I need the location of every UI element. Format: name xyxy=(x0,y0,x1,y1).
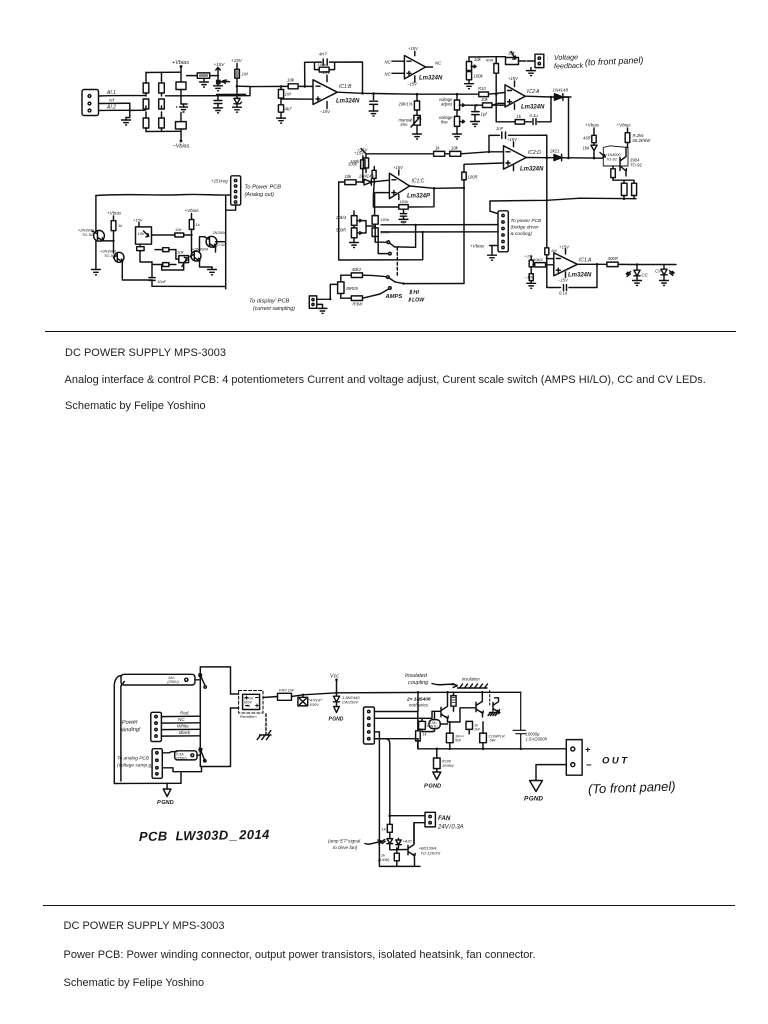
resistor R33 xyxy=(372,224,378,242)
resistor RM7 xyxy=(189,214,194,236)
LED opto pair xyxy=(382,837,393,848)
svg-text:(To front panel): (To front panel) xyxy=(588,778,676,796)
capacitor C8 loop top xyxy=(502,132,506,138)
svg-text:0.1u: 0.1u xyxy=(530,113,539,118)
transistor QL1 xyxy=(92,230,114,241)
svg-text:CC: CC xyxy=(642,273,649,278)
wire minus input xyxy=(489,151,504,153)
resistor R11 20k/1% xyxy=(414,94,419,115)
wire nc xyxy=(161,722,200,724)
svg-text:(1/4W): (1/4W) xyxy=(378,858,390,862)
mid box pot xyxy=(136,223,152,245)
svg-text:−1%: −1% xyxy=(525,275,534,280)
svg-text:P GND: P GND xyxy=(524,796,543,803)
vertical combine wire xyxy=(568,97,570,158)
svg-text:+15V: +15V xyxy=(393,165,404,170)
wire Q8 emitter to Q9 base xyxy=(448,708,477,722)
svg-text:fine: fine xyxy=(441,120,448,125)
caption 1 byline xyxy=(65,400,206,412)
svg-text:+15V: +15V xyxy=(408,46,419,51)
resistor R22 46R xyxy=(592,128,596,143)
resistor RA3 lower pair xyxy=(143,112,149,132)
svg-text:(250V): (250V) xyxy=(167,680,179,684)
fan drive vertical B xyxy=(374,739,389,825)
PGND arrow out xyxy=(530,781,543,792)
wire pgnd stub xyxy=(166,783,168,789)
svg-text:TO-126/XX: TO-126/XX xyxy=(421,851,441,856)
resistor R21 xyxy=(361,149,369,173)
svg-text:(bridge driver: (bridge driver xyxy=(511,225,540,231)
pot RM6 xyxy=(162,250,189,270)
node IC2D out xyxy=(546,156,549,159)
svg-text:Ⅱ HI: Ⅱ HI xyxy=(409,289,419,296)
wire up right connector xyxy=(226,205,236,210)
resistor RM3 xyxy=(152,233,192,237)
svg-text:10k: 10k xyxy=(481,97,489,102)
ground under D2 xyxy=(233,107,242,112)
wire A drop to switch xyxy=(395,225,416,247)
op-amp IC2:A xyxy=(505,81,525,109)
svg-text:(amp “ET” signal: (amp “ET” signal xyxy=(328,839,361,844)
svg-text:+Vbias: +Vbias xyxy=(617,123,632,128)
op-amp IC2:D xyxy=(504,142,527,171)
svg-text:To power PCB: To power PCB xyxy=(511,218,543,224)
wire IC2D out xyxy=(526,157,554,159)
svg-text:FAN: FAN xyxy=(438,815,451,822)
svg-text:+Vbias: +Vbias xyxy=(585,123,600,128)
svg-text:80R: 80R xyxy=(486,58,493,63)
ground under C3 xyxy=(214,108,223,113)
svg-text:Rectifier≈: Rectifier≈ xyxy=(240,714,258,719)
resistor R35 40k2 xyxy=(341,273,387,278)
svg-text:2k21: 2k21 xyxy=(549,149,560,154)
svg-text:IC1:A: IC1:A xyxy=(579,258,592,264)
arrow to opto xyxy=(365,840,382,844)
svg-text:Red: Red xyxy=(180,711,189,716)
svg-text:10k: 10k xyxy=(287,78,295,83)
svg-text:adjust: adjust xyxy=(441,102,453,107)
node xyxy=(280,85,283,88)
wire main rail s2 xyxy=(337,691,521,694)
svg-text:−15V: −15V xyxy=(558,278,569,283)
svg-text:coupling: coupling xyxy=(408,680,428,686)
ground under R40 xyxy=(527,283,536,288)
wire Q11 emitter to rail xyxy=(415,859,421,866)
svg-text:winding!: winding! xyxy=(120,727,141,734)
ground under C5 xyxy=(369,111,378,116)
svg-text:40k2: 40k2 xyxy=(352,267,362,272)
resistor RA1 xyxy=(143,73,149,110)
svg-text:Ⅱ LOW: Ⅱ LOW xyxy=(408,298,425,304)
node xyxy=(495,93,498,96)
pot voltage adjust xyxy=(454,94,464,116)
node output IC1B xyxy=(361,92,364,95)
svg-text:Insulated: Insulated xyxy=(405,673,428,679)
capacitor C7 loop xyxy=(533,119,536,125)
svg-text:CA/250V: CA/250V xyxy=(342,700,358,705)
svg-text:Lm324P: Lm324P xyxy=(407,194,431,200)
transistor QR2 xyxy=(200,236,217,251)
svg-text:2N4148: 2N4148 xyxy=(358,174,374,179)
connector CN5 voltage sampling xyxy=(152,749,162,779)
svg-text:500R: 500R xyxy=(336,228,346,233)
svg-text:V cc: V cc xyxy=(330,674,339,680)
svg-text:2N3906: 2N3906 xyxy=(212,230,227,235)
svg-text:6A: 6A xyxy=(246,704,251,708)
wire fan pin1 xyxy=(390,815,425,817)
svg-text:10k: 10k xyxy=(345,174,353,179)
svg-text:insulation: insulation xyxy=(462,677,480,682)
wire Vcc stub xyxy=(335,679,338,693)
svg-text:×A20: ×A20 xyxy=(403,840,413,844)
diode D3 1N4148 xyxy=(555,94,571,101)
svg-text:+Vbias: +Vbias xyxy=(172,60,189,66)
svg-text:trim: trim xyxy=(401,122,408,127)
ground under J2 xyxy=(527,68,536,76)
resistor R38 xyxy=(533,263,554,271)
svg-text:P GND: P GND xyxy=(329,717,344,723)
schematic 2: power PCB xyxy=(0,650,768,880)
sense resistor R46 xyxy=(434,749,441,772)
wire +15V column xyxy=(236,64,238,95)
svg-text:(to front panel): (to front panel) xyxy=(585,55,644,68)
ground under LED CV xyxy=(660,281,669,286)
resistor RM4 xyxy=(155,248,176,252)
capacitor C12 xyxy=(418,718,433,731)
zener D2 xyxy=(234,94,242,107)
svg-text:NC: NC xyxy=(385,60,392,65)
svg-text:1k: 1k xyxy=(517,114,522,119)
bottom rail s2 xyxy=(418,748,566,750)
svg-text:NTC: NTC xyxy=(431,724,439,728)
svg-text:P GND: P GND xyxy=(157,800,174,806)
svg-text:+15Vreg: +15Vreg xyxy=(211,179,228,184)
diode D6 input xyxy=(364,179,389,185)
wire QL2 down xyxy=(122,263,152,281)
switch pole A contact xyxy=(387,241,390,244)
svg-text:R10: R10 xyxy=(478,86,486,91)
svg-text:IC1:C: IC1:C xyxy=(412,179,425,185)
resistor R17 on minus xyxy=(479,92,505,97)
op-amp IC1:A xyxy=(554,249,578,277)
ground under divider xyxy=(277,118,286,123)
resistor R7 (input) xyxy=(288,84,313,89)
rule 2 xyxy=(43,905,735,907)
svg-text:AI.2: AI.2 xyxy=(106,105,116,111)
wire NC input 1 xyxy=(392,60,404,62)
switch SW1b xyxy=(204,686,206,688)
wire top rail xyxy=(469,56,502,58)
feedback loop IC2A xyxy=(496,94,551,122)
ground QL1 xyxy=(92,270,101,275)
resistor RB2 xyxy=(176,122,187,129)
svg-text:Lm324N: Lm324N xyxy=(521,105,545,111)
wire contact A2 xyxy=(378,237,388,254)
svg-text:10nF: 10nF xyxy=(157,279,167,284)
resistor R47 xyxy=(387,824,392,837)
svg-text:1M: 1M xyxy=(285,92,291,97)
resistor R28 xyxy=(372,167,376,183)
switch pole A contact 2 xyxy=(389,252,392,255)
wire contact A1 xyxy=(375,224,387,242)
schematic 1: analog interface & control PCB xyxy=(0,0,768,336)
wire IC1B input xyxy=(166,86,288,95)
ground under C9 xyxy=(399,219,408,224)
wire NC input 2 xyxy=(392,72,404,74)
svg-text:10k: 10k xyxy=(508,51,516,56)
svg-text:+1N4000: +1N4000 xyxy=(605,153,621,157)
connector CN7 out xyxy=(566,740,582,776)
capacitor C9 loop xyxy=(400,209,406,219)
svg-text:+15V: +15V xyxy=(508,76,519,81)
svg-text:1u: 1u xyxy=(427,723,432,728)
svg-text:(Analog out): (Analog out) xyxy=(245,192,275,198)
resistor R6 xyxy=(235,69,240,78)
wire top bias rail xyxy=(146,71,181,73)
connector CN2 xyxy=(498,211,508,252)
resistor R14 xyxy=(466,72,471,84)
wire +15V stub xyxy=(216,67,220,79)
resistor RB1 xyxy=(176,82,186,90)
node xyxy=(416,93,419,96)
transistor Q10 sense xyxy=(493,698,499,714)
transistor Q8 xyxy=(441,692,448,722)
svg-text:68.2k/8W: 68.2k/8W xyxy=(633,138,652,143)
wire QR2 to rail xyxy=(216,242,226,252)
svg-text:1M: 1M xyxy=(242,72,248,77)
svg-text:100R: 100R xyxy=(468,175,478,180)
bottom rail right xyxy=(490,198,636,213)
resistor R48 xyxy=(394,848,399,867)
ground under R14 xyxy=(465,84,474,89)
svg-text:0.1u: 0.1u xyxy=(559,291,568,296)
wire to node xyxy=(563,96,569,98)
wire pole B common xyxy=(395,282,464,284)
svg-text:CV: CV xyxy=(655,269,662,274)
resistor R5 10k xyxy=(187,73,219,78)
svg-text:Black: Black xyxy=(179,730,191,735)
feedback loop IC1B xyxy=(305,62,363,93)
transistor Q6 outline xyxy=(603,146,628,166)
resistor R30 loop xyxy=(399,205,408,210)
switch SW1a xyxy=(195,674,205,686)
caption 1 body xyxy=(65,374,706,386)
caption 1 title xyxy=(65,347,226,359)
svg-text:(voltage samp.g): (voltage samp.g) xyxy=(117,763,153,769)
resistor chain top: pot R13 xyxy=(466,57,476,72)
ground under R5 xyxy=(200,78,209,87)
resistor R29 input IC1C xyxy=(339,180,362,185)
svg-text:+15V: +15V xyxy=(231,58,243,63)
wire IC1C plus from pots xyxy=(375,193,390,216)
wire left input column xyxy=(338,182,340,260)
svg-text:& cooling): & cooling) xyxy=(511,231,533,237)
diode D4 xyxy=(554,154,603,160)
transistor Q6 arrow xyxy=(600,153,605,158)
bottom rail mirror xyxy=(152,285,226,287)
wire mains outline xyxy=(114,676,181,784)
svg-text:Lm324N: Lm324N xyxy=(520,167,544,173)
svg-text:+15V: +15V xyxy=(214,62,226,67)
fan drive vertical A xyxy=(374,732,414,867)
resistor RM2 xyxy=(137,244,152,262)
resistor R34 49R9 xyxy=(338,275,344,298)
svg-text:IC2:A: IC2:A xyxy=(527,89,540,95)
ground (bias mid) xyxy=(177,104,188,112)
node xyxy=(304,85,307,88)
svg-text:NC: NC xyxy=(385,72,392,77)
svg-text:AMPS: AMPS xyxy=(385,294,403,300)
zener D7 TVS xyxy=(333,692,339,707)
svg-text:×2N3904: ×2N3904 xyxy=(192,247,209,252)
capacitor C6 1uf xyxy=(472,104,479,121)
wire plus input IC2D xyxy=(464,163,504,172)
wire IC1C out xyxy=(410,186,464,188)
wire AI.2 xyxy=(99,109,146,111)
wire wiper links xyxy=(362,221,376,233)
resistor R24 xyxy=(611,166,616,180)
trimmer RV1 xyxy=(411,115,421,134)
ground under LED CC xyxy=(633,281,642,286)
resistor RM5 xyxy=(152,263,176,267)
svg-text:PCB LW303D _ 2014: PCB LW303D _ 2014 xyxy=(139,827,270,844)
svg-text:+: + xyxy=(585,745,591,756)
svg-text:+1%: +1% xyxy=(525,254,534,259)
wire output rail xyxy=(337,92,478,94)
emitter resistor R44 xyxy=(446,722,453,749)
svg-text:TO-92: TO-92 xyxy=(630,163,642,168)
node IC2A out xyxy=(550,96,553,99)
wire plus input xyxy=(281,98,313,100)
capacitor C3 xyxy=(214,95,222,108)
svg-text:FR3 1W: FR3 1W xyxy=(279,688,295,693)
ground near CN2 xyxy=(488,246,497,261)
wire to IC1B input xyxy=(237,85,250,87)
arrow coupling xyxy=(432,684,457,688)
resistor R20 10k xyxy=(450,151,489,156)
caption 2 byline xyxy=(64,977,205,989)
node xyxy=(456,93,459,96)
svg-text:1nF: 1nF xyxy=(496,126,504,131)
svg-text:+Vbias: +Vbias xyxy=(185,208,200,213)
svg-text:To analog PCB: To analog PCB xyxy=(117,756,150,762)
wire mirror top rail xyxy=(96,194,231,195)
fan connector CN8 xyxy=(425,812,435,827)
svg-text:AI.1: AI.1 xyxy=(106,90,116,96)
capacitor C10 loop xyxy=(564,285,567,291)
svg-text:OUT: OUT xyxy=(602,756,630,767)
switch pole B contact 1 xyxy=(387,276,390,279)
svg-text:4k7: 4k7 xyxy=(285,107,293,112)
svg-text:10k: 10k xyxy=(175,227,182,232)
svg-text:1k8: 1k8 xyxy=(583,146,590,151)
wire out xyxy=(525,95,554,98)
wire snubber rail xyxy=(217,93,246,95)
svg-text:1.5A/2000h: 1.5A/2000h xyxy=(526,737,548,742)
svg-text:5W: 5W xyxy=(455,739,461,743)
svg-text:100k: 100k xyxy=(400,199,410,204)
chassis ground xyxy=(265,714,267,735)
svg-text:1k: 1k xyxy=(382,827,387,832)
op-amp IC1:B xyxy=(313,75,337,108)
transistor QL2 xyxy=(114,241,125,262)
svg-text:10k: 10k xyxy=(138,231,145,236)
svg-text:1A≈: 1A≈ xyxy=(168,676,176,680)
svg-text::: : xyxy=(547,56,549,62)
switch pole B lever xyxy=(389,278,395,282)
fuse F2 xyxy=(162,751,197,760)
resistor R41 300R xyxy=(607,262,676,267)
rule 1 xyxy=(45,331,736,333)
wire red xyxy=(161,715,200,717)
pot current fine xyxy=(351,225,361,242)
connector J3 display xyxy=(309,296,316,308)
svg-text:4n7: 4n7 xyxy=(319,52,327,57)
feedback loop IC1A xyxy=(547,259,597,288)
switch SW1c xyxy=(197,748,205,760)
resistor R12 xyxy=(477,103,506,108)
wire wiper to R12 xyxy=(465,104,477,106)
resistor R19 1k xyxy=(434,151,450,156)
svg-text:−Vbias: −Vbias xyxy=(173,144,190,150)
shunt wire from connector xyxy=(317,284,338,299)
transistor Q11 xyxy=(408,823,415,859)
transistor Q5 xyxy=(216,80,230,85)
svg-text:Lm324N: Lm324N xyxy=(419,76,443,82)
wire mirror right vertical xyxy=(225,195,227,289)
op-amp IC1:C xyxy=(389,170,409,200)
resistor RM1 xyxy=(111,216,116,241)
svg-text:To display’ PCB: To display’ PCB xyxy=(249,299,290,305)
caption 2 body xyxy=(64,949,536,961)
feedback loop IC2D xyxy=(489,135,547,248)
wire pair A to CN2 xyxy=(381,224,498,226)
svg-text:100k: 100k xyxy=(381,230,391,235)
wire xyxy=(180,113,182,141)
svg-text:10k/2: 10k/2 xyxy=(533,257,544,262)
svg-text:Power: Power xyxy=(122,719,139,726)
capacitor C5 out xyxy=(370,92,378,111)
chassis hatch under Q10 xyxy=(488,713,500,716)
connector CN4 power winding xyxy=(151,712,162,741)
wire from +15V node xyxy=(366,153,434,155)
svg-text:1μf: 1μf xyxy=(481,112,488,117)
wire sampling taps xyxy=(162,767,201,772)
node +Vbias xyxy=(180,65,183,68)
svg-text:46R: 46R xyxy=(583,136,591,141)
wire rail left stub xyxy=(374,739,418,749)
ground under RV1 xyxy=(413,134,422,139)
svg-text:Lm324N: Lm324N xyxy=(336,99,360,105)
LED CC xyxy=(626,265,640,281)
resistor R8 divider xyxy=(278,86,283,118)
PGND arrow 1 xyxy=(163,789,171,797)
connector J2 voltage feedback xyxy=(527,54,544,67)
svg-text:to drive fan): to drive fan) xyxy=(333,845,358,850)
svg-text:White: White xyxy=(177,724,189,729)
svg-text:NC: NC xyxy=(178,717,185,722)
resistor RA2 xyxy=(159,73,165,110)
svg-text:ref: ref xyxy=(109,98,115,103)
node xyxy=(236,85,239,88)
resistor R10 loop xyxy=(315,62,335,72)
svg-text:(250V): (250V) xyxy=(176,756,187,760)
ground under C6 xyxy=(471,122,480,127)
svg-text:300R: 300R xyxy=(608,256,619,261)
svg-text:IC1:B: IC1:B xyxy=(339,84,352,90)
wire bottom bias rail xyxy=(146,130,181,132)
wire transformer to bridge xyxy=(231,694,239,708)
